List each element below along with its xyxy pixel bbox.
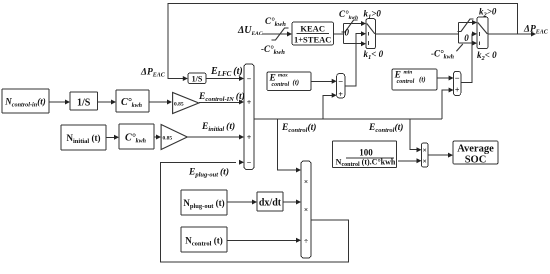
svg-text:Econtrol(t): Econtrol(t) bbox=[281, 122, 316, 134]
wire to gain 0.85 row2 bbox=[154, 136, 157, 138]
wire E_min to sumB in1 bbox=[437, 77, 449, 79]
saturation symbol S0 on dU_EAC wire bbox=[272, 28, 289, 40]
wire E_LFC to main sum in1 bbox=[206, 78, 240, 80]
svg-text:C°kwh: C°kwh bbox=[339, 9, 358, 21]
wire sumA output up to switch1 in2 bbox=[345, 34, 362, 86]
svg-text:+: + bbox=[455, 86, 460, 95]
svg-text:−: − bbox=[247, 158, 252, 167]
svg-text:+: + bbox=[338, 90, 343, 99]
source block N_control(t) bbox=[181, 227, 227, 252]
integrator block 1/S row1 bbox=[70, 92, 98, 110]
wire dU_EAC input bbox=[262, 33, 289, 35]
svg-text:−: − bbox=[338, 76, 343, 86]
source block N_control-in(t) bbox=[2, 89, 49, 113]
wire to gain 0.85 row1 bbox=[149, 101, 168, 103]
block E_min_control bbox=[392, 69, 437, 90]
multiplier block M2 bbox=[422, 143, 429, 167]
switch U_sw1 bbox=[366, 19, 376, 49]
block E_max_control bbox=[267, 72, 311, 91]
svg-text:100: 100 bbox=[359, 148, 373, 158]
wire upper branch to switch1 in1 bbox=[344, 23, 362, 25]
wire switch1 output to junction J2 bbox=[376, 33, 459, 35]
wire lower branch to switch2 in3 bbox=[458, 42, 472, 44]
svg-text:-C°kwh: -C°kwh bbox=[261, 44, 285, 56]
svg-text:SOC: SOC bbox=[465, 155, 487, 166]
svg-text:×: × bbox=[423, 145, 427, 154]
svg-text:0.85: 0.85 bbox=[174, 102, 184, 108]
derivative block dx/dt bbox=[257, 192, 283, 211]
wire upper branch to switch2 in1 bbox=[458, 22, 472, 24]
svg-text:(t): (t) bbox=[419, 76, 426, 84]
svg-text:×: × bbox=[423, 156, 427, 165]
svg-text:min: min bbox=[404, 70, 413, 76]
svg-text:-C°kwh: -C°kwh bbox=[431, 49, 455, 61]
leader line of -C_kwh label bbox=[456, 44, 462, 51]
wire 100N out to multiplier M2 in2 bbox=[398, 160, 417, 162]
svg-text:ΔPEAC: ΔPEAC bbox=[140, 68, 166, 79]
wire E_max to sumA in1 bbox=[311, 80, 332, 82]
wire to 1/S row1 bbox=[49, 101, 66, 103]
gain triangle 0.85 row1 bbox=[173, 93, 199, 114]
svg-text:ΔPEAC: ΔPEAC bbox=[523, 25, 549, 36]
svg-text:Einitial (t): Einitial (t) bbox=[201, 121, 235, 133]
saturation symbol S1 (0..C_kwh) bbox=[342, 20, 358, 32]
wire to C_kwh row2 bbox=[106, 136, 115, 138]
svg-text:0.85: 0.85 bbox=[163, 136, 173, 142]
svg-text:×: × bbox=[304, 177, 308, 186]
svg-text:dx/dt: dx/dt bbox=[259, 198, 282, 209]
gain block C_kwh row2 bbox=[119, 124, 154, 149]
wire E_initial to main sum in3 bbox=[187, 136, 239, 138]
switch U_sw2 bbox=[477, 17, 488, 49]
wire E_control up to sumA in2 bbox=[323, 95, 332, 119]
wire E_control up to sumB in2 bbox=[442, 90, 449, 119]
svg-text:Average: Average bbox=[457, 144, 494, 155]
svg-text:1/S: 1/S bbox=[192, 75, 203, 84]
node arrow into KEAC bbox=[287, 32, 292, 37]
wire sumB output up to switch2 in2 bbox=[461, 34, 473, 83]
wire KEAC output to split junction J1 bbox=[334, 33, 344, 35]
gain block C_kwh row1 bbox=[116, 90, 149, 112]
svg-text:×: × bbox=[304, 205, 308, 214]
svg-text:C°kwh: C°kwh bbox=[265, 16, 286, 28]
junction J2 vertical split bbox=[457, 23, 459, 44]
saturation symbol S2 (-C_kwh..0) bbox=[458, 19, 474, 32]
svg-text:−: − bbox=[455, 73, 460, 83]
gain triangle 0.85 row2 bbox=[161, 125, 187, 150]
wire E_control drop to product block top bbox=[277, 119, 297, 170]
svg-text:ΔUEAC: ΔUEAC bbox=[237, 25, 263, 37]
svg-text:Econtrol-IN (t): Econtrol-IN (t) bbox=[198, 91, 245, 103]
main summing block bbox=[244, 64, 254, 170]
svg-text:−: − bbox=[247, 75, 252, 84]
svg-text:KEAC: KEAC bbox=[300, 24, 325, 34]
constant block 100/(N_control(t).C_kwh) bbox=[333, 141, 397, 168]
svg-text:k1< 0: k1< 0 bbox=[364, 49, 384, 61]
svg-text:Eplug-out (t): Eplug-out (t) bbox=[188, 167, 229, 179]
wire switch2 output to dP_EAC out bbox=[488, 33, 532, 35]
svg-text:1+STEAC: 1+STEAC bbox=[294, 35, 331, 45]
output block Average SOC bbox=[453, 141, 498, 164]
svg-text:control: control bbox=[397, 79, 415, 85]
wire product output feedback E_plug-out to main sum in4 bbox=[161, 162, 349, 262]
svg-text:(t): (t) bbox=[293, 78, 300, 86]
wire M2 out to Average SOC bbox=[428, 154, 449, 156]
svg-text:1/S: 1/S bbox=[77, 98, 91, 109]
wire E_control(t) main bus bbox=[254, 118, 442, 120]
wire feedback loop dP_EAC to 1/S bbox=[168, 4, 517, 79]
svg-text:control: control bbox=[272, 82, 290, 88]
integrator block 1/S (LFC) bbox=[188, 73, 206, 84]
product block P1 (x,x,/) bbox=[301, 161, 311, 258]
summing block B bbox=[454, 71, 461, 95]
summing block A bbox=[337, 74, 345, 98]
svg-text:ELFC (t): ELFC (t) bbox=[210, 66, 243, 78]
svg-text:+: + bbox=[247, 98, 252, 107]
transfer function block KEAC/(1+STEAC) bbox=[292, 22, 334, 45]
wire lower branch to switch1 in3 bbox=[344, 43, 362, 45]
svg-text:0: 0 bbox=[464, 33, 469, 43]
wire E_control-IN to main sum in2 bbox=[199, 101, 240, 104]
svg-text:k2< 0: k2< 0 bbox=[477, 50, 497, 62]
svg-text:Econtrol(t): Econtrol(t) bbox=[368, 122, 403, 134]
wire dx/dt to product in2 bbox=[283, 201, 297, 203]
wire E_control drop to multiplier M2 in1 bbox=[410, 119, 417, 150]
svg-text:÷: ÷ bbox=[304, 236, 308, 245]
source block N_initial(t) bbox=[61, 125, 106, 150]
svg-text:0: 0 bbox=[345, 28, 350, 38]
source block N_plug-out(t) bbox=[181, 190, 227, 215]
wire N_control to product in3 bbox=[227, 239, 297, 241]
svg-text:max: max bbox=[278, 73, 288, 79]
junction J1 vertical split bbox=[343, 24, 345, 44]
wire to C_kwh row1 bbox=[98, 101, 112, 103]
wire N_plug-out to dx/dt bbox=[227, 201, 253, 203]
svg-text:+: + bbox=[247, 133, 252, 142]
